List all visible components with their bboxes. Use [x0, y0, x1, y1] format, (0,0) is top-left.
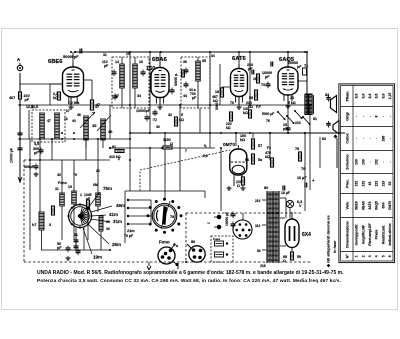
svg-text:219: 219	[255, 199, 261, 203]
svg-text:0M70: 0M70	[223, 142, 235, 148]
svg-text:Amplific.MF: Amplific.MF	[361, 225, 365, 244]
svg-text:3: 3	[368, 255, 372, 257]
svg-text:◆ Gli altoparlanti devono es: ◆ Gli altoparlanti devono es	[326, 215, 331, 268]
svg-text:40: 40	[156, 125, 160, 129]
svg-text:0M: 0M	[93, 183, 98, 187]
svg-text:pF: pF	[86, 197, 90, 201]
svg-text:Schermo: Schermo	[345, 154, 349, 170]
svg-text:100: 100	[355, 159, 359, 165]
svg-text:kΩ: kΩ	[265, 155, 270, 159]
svg-text:21m: 21m	[127, 229, 135, 233]
svg-text:63: 63	[368, 182, 372, 186]
svg-text:V: V	[299, 204, 302, 208]
svg-text:6,6: 6,6	[355, 94, 359, 99]
svg-text:Pilam.: Pilam.	[345, 91, 349, 102]
svg-text:5a: 5a	[258, 158, 263, 162]
svg-text:152: 152	[355, 181, 359, 187]
svg-text:216: 216	[381, 181, 385, 187]
svg-text:45: 45	[92, 123, 97, 128]
svg-text:78: 78	[170, 215, 174, 219]
svg-text:40: 40	[106, 227, 110, 231]
svg-text:kΩ: kΩ	[243, 111, 248, 115]
svg-text:86: 86	[191, 239, 196, 244]
svg-text:Ω: Ω	[170, 142, 173, 146]
svg-text:-: -	[361, 138, 365, 139]
svg-text:5: 5	[381, 255, 385, 257]
svg-text:75m: 75m	[103, 186, 112, 191]
svg-text:~: ~	[207, 221, 210, 227]
svg-text:58: 58	[249, 96, 253, 100]
svg-text:47: 47	[47, 119, 51, 123]
svg-text:79: 79	[301, 167, 305, 171]
svg-text:-: -	[375, 138, 379, 139]
svg-text:300pF: 300pF	[24, 165, 35, 169]
svg-text:44: 44	[72, 119, 76, 123]
svg-text:79: 79	[73, 173, 77, 177]
svg-text:34: 34	[137, 94, 141, 98]
svg-text:6,3: 6,3	[203, 154, 208, 158]
svg-text:5 kΩ: 5 kΩ	[288, 101, 296, 105]
svg-text:Denominazione: Denominazione	[345, 221, 349, 248]
svg-text:6BA6: 6BA6	[361, 201, 365, 210]
svg-text:-: -	[388, 138, 392, 139]
svg-text:N°: N°	[345, 254, 349, 259]
svg-text:pF: pF	[25, 98, 30, 102]
svg-text:pF: pF	[34, 151, 39, 155]
svg-text:50000 p.: 50000 p.	[174, 73, 178, 86]
svg-text:6BA6: 6BA6	[152, 57, 168, 63]
svg-text:18: 18	[215, 90, 219, 94]
svg-text:pF: pF	[192, 96, 196, 100]
svg-text:a: a	[176, 244, 178, 248]
svg-text:Fono: Fono	[58, 181, 68, 185]
svg-text:2,2 49a: 2,2 49a	[68, 101, 79, 105]
svg-text:2: 2	[361, 255, 365, 257]
svg-text:-: -	[381, 161, 385, 162]
svg-text:8: 8	[375, 115, 379, 117]
svg-text:47: 47	[96, 103, 100, 107]
svg-text:10000 pF: 10000 pF	[225, 212, 229, 226]
svg-text:81: 81	[313, 117, 317, 121]
svg-text:3: 3	[49, 223, 51, 227]
svg-text:53: 53	[388, 182, 392, 186]
svg-text:76: 76	[266, 119, 270, 123]
svg-text:-: -	[388, 161, 392, 162]
svg-text:79: 79	[230, 101, 234, 105]
svg-text:100: 100	[361, 159, 365, 165]
svg-text:kΩ: kΩ	[213, 99, 218, 103]
svg-text:314: 314	[255, 224, 261, 228]
svg-text:219: 219	[295, 121, 301, 125]
svg-text:42: 42	[168, 113, 172, 117]
svg-text:40: 40	[57, 173, 61, 177]
svg-text:-: -	[355, 138, 359, 139]
svg-text:9,: 9,	[204, 144, 207, 148]
svg-text:56: 56	[245, 158, 249, 162]
svg-text:25m: 25m	[112, 242, 121, 247]
svg-text:A: A	[17, 57, 21, 62]
svg-text:Sovrappositr.: Sovrappositr.	[355, 224, 359, 246]
svg-text:-: -	[381, 116, 385, 117]
svg-text:Indicat.sinton: Indicat.sinton	[388, 223, 392, 245]
svg-text:84: 84	[257, 249, 261, 253]
svg-text:31: 31	[103, 53, 107, 57]
svg-text:19: 19	[68, 185, 72, 189]
svg-text:18 μF: 18 μF	[281, 191, 290, 195]
svg-text:6X4: 6X4	[302, 232, 311, 238]
svg-text:kΩ: kΩ	[179, 118, 184, 122]
svg-text:-: -	[361, 116, 365, 117]
svg-text:-: -	[355, 116, 359, 117]
svg-text:-: -	[368, 161, 372, 162]
svg-text:-: -	[368, 116, 372, 117]
svg-text:31m: 31m	[113, 219, 122, 224]
svg-text:78: 78	[295, 147, 299, 151]
svg-text:13: 13	[290, 96, 294, 100]
svg-text:152: 152	[361, 181, 365, 187]
svg-text:pF: pF	[57, 246, 62, 250]
svg-text:6,6: 6,6	[361, 94, 365, 99]
svg-text:286: 286	[381, 136, 385, 142]
svg-text:35: 35	[202, 59, 206, 63]
svg-text:5: 5	[181, 113, 183, 117]
svg-text:Plac.: Plac.	[345, 179, 349, 187]
svg-text:5000: 5000	[215, 102, 219, 110]
svg-text:1: 1	[355, 255, 359, 257]
svg-text:6AT6: 6AT6	[368, 201, 372, 209]
svg-text:80: 80	[264, 186, 268, 190]
svg-text:F.F: F.F	[256, 105, 261, 109]
svg-text:4,5: 4,5	[34, 142, 39, 146]
svg-text:7: 7	[185, 149, 187, 153]
svg-text:k7: k7	[66, 109, 70, 113]
svg-text:16: 16	[139, 60, 143, 64]
svg-text:14: 14	[115, 60, 119, 64]
svg-text:5000 μF: 5000 μF	[262, 112, 274, 116]
svg-text:Fz: Fz	[267, 146, 271, 150]
svg-text:10000 pF: 10000 pF	[10, 147, 14, 163]
svg-text:23: 23	[96, 169, 100, 173]
svg-text:Grigl: Grigl	[345, 112, 349, 120]
svg-text:12,5: 12,5	[31, 105, 38, 109]
svg-text:pF: pF	[104, 64, 109, 68]
svg-text:83: 83	[322, 137, 326, 141]
svg-text:467: 467	[9, 96, 15, 100]
svg-text:Valv.: Valv.	[345, 202, 349, 210]
svg-text:+: +	[312, 178, 315, 183]
svg-text:6: 6	[388, 255, 392, 257]
svg-text:1,15: 1,15	[388, 93, 392, 100]
svg-text:16 μF: 16 μF	[297, 176, 307, 180]
svg-text:6,6: 6,6	[381, 94, 385, 99]
svg-text:19m: 19m	[93, 255, 102, 260]
svg-text:15: 15	[126, 52, 130, 56]
svg-text:46: 46	[77, 113, 81, 117]
svg-text:41m: 41m	[109, 212, 118, 217]
svg-text:Ω: Ω	[237, 184, 240, 188]
svg-text:in fase: in fase	[332, 240, 337, 253]
svg-text:Fono: Fono	[159, 240, 170, 245]
svg-text:59: 59	[297, 255, 301, 259]
svg-text:kΩ: kΩ	[240, 138, 245, 142]
svg-text:pF: pF	[297, 65, 302, 69]
svg-text:1: 1	[80, 193, 82, 197]
svg-text:81: 81	[112, 145, 116, 149]
svg-text:6AQ5: 6AQ5	[375, 201, 379, 210]
svg-text:152: 152	[375, 159, 379, 165]
svg-text:pF: pF	[265, 75, 270, 79]
svg-text:Catod: Catod	[345, 133, 349, 143]
svg-text:6BE6: 6BE6	[355, 201, 359, 210]
svg-text:-: -	[388, 116, 392, 117]
svg-text:6,6: 6,6	[375, 94, 379, 99]
svg-text:Fuse: Fuse	[213, 237, 220, 241]
svg-text:1k: 1k	[64, 117, 68, 121]
svg-text:kΩ: kΩ	[226, 126, 231, 130]
svg-text:6BE6: 6BE6	[48, 59, 63, 65]
svg-text:49m: 49m	[116, 203, 125, 208]
svg-text:57: 57	[258, 144, 262, 148]
svg-text:50000pF: 50000pF	[63, 54, 79, 59]
svg-text:Rivel.ampl.BF: Rivel.ampl.BF	[368, 223, 372, 245]
svg-text:36: 36	[183, 60, 187, 64]
svg-text:4: 4	[375, 255, 379, 257]
svg-text:OM70: OM70	[388, 201, 392, 210]
svg-text:31: 31	[55, 187, 59, 191]
svg-text:-: -	[368, 138, 372, 139]
svg-text:Ω: Ω	[283, 259, 286, 263]
svg-text:h7: h7	[32, 223, 36, 227]
svg-text:73: 73	[261, 83, 265, 87]
svg-text:10000pF: 10000pF	[136, 109, 151, 113]
svg-text:46: 46	[108, 129, 113, 134]
svg-text:223: 223	[375, 181, 379, 187]
svg-text:Raddrizzatr.: Raddrizzatr.	[381, 225, 385, 244]
svg-text:70 pF: 70 pF	[124, 234, 134, 238]
svg-text:6,6: 6,6	[368, 94, 372, 99]
svg-text:216: 216	[260, 264, 266, 268]
svg-text:44: 44	[183, 94, 187, 98]
svg-text:·72: ·72	[152, 118, 157, 122]
svg-text:6X4: 6X4	[381, 202, 385, 208]
svg-text:71: 71	[304, 64, 308, 68]
svg-text:34: 34	[211, 54, 215, 58]
svg-text:150: 150	[146, 66, 155, 72]
svg-text:2: 2	[118, 157, 120, 161]
svg-text:Finale: Finale	[375, 229, 379, 239]
svg-text:6AT6: 6AT6	[232, 56, 247, 62]
